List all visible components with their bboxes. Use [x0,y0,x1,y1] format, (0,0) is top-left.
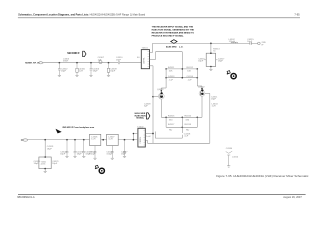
stamp mark 1 [227,71,236,79]
svg-text:10K: 10K [187,70,191,72]
second IF wire (top) [153,42,258,44]
block T4302 [138,128,145,147]
svg-text:5pF: 5pF [144,105,148,107]
small output circuit bottom right [226,151,233,167]
box B2 (C4316/C4317 network) [206,53,215,66]
svg-text:Figure 7-65. HUE4040A/HUE4043A: Figure 7-65. HUE4040A/HUE4043A (VHF) Rec… [216,174,309,178]
Q2 collector wire right and down [205,93,210,143]
svg-text:C4313: C4313 [168,76,175,78]
series coil L4302 [231,42,238,43]
svg-text:18pF: 18pF [77,154,83,156]
shunt cap branch b84 [82,140,85,158]
output terminal 2nd IF [258,42,261,45]
terminal J1 [39,62,44,64]
svg-text:18pF: 18pF [247,41,253,43]
svg-text:.1uF: .1uF [169,79,174,81]
svg-text:18pF: 18pF [116,59,122,61]
supply line to bias network [156,52,183,78]
shunt branch C4306 [89,63,92,77]
svg-text:2ND MIX IF From backplane area: 2ND MIX IF From backplane area [62,126,95,129]
svg-text:MIXER_RF_IN: MIXER_RF_IN [25,63,40,65]
svg-text:18pF: 18pF [211,98,217,100]
svg-text:150pF: 150pF [106,154,113,156]
shunt branch L4306 [75,63,78,77]
svg-text:T4302: T4302 [137,127,144,129]
T4301 right pins [150,43,156,96]
svg-text:1pF: 1pF [98,59,102,61]
svg-text:Q4302: Q4302 [198,87,205,89]
emitter drops to lower rail [161,96,202,117]
shunt branch b124 [123,140,126,158]
svg-text:7-95: 7-95 [294,12,300,16]
series cap C4315 [250,42,252,45]
upper bias rail 1 [166,68,197,70]
svg-text:T4301: T4301 [142,48,149,50]
svg-text:August 29, 2007: August 29, 2007 [283,195,302,199]
upper bias rail 2 [166,77,197,79]
svg-text:.1uF: .1uF [187,79,192,81]
verticals between rails [161,69,202,93]
series coil C4307 [99,61,102,64]
svg-text:18pF: 18pF [121,154,127,156]
callout arrow (hollow) [147,113,150,119]
svg-text:CERFIL: CERFIL [140,137,142,144]
svg-text:PRODUCE SECOND IF SIGNAL.: PRODUCE SECOND IF SIGNAL. [152,34,185,37]
svg-text:RECEIVER SYNTHESIZER ARE MIXED: RECEIVER SYNTHESIZER ARE MIXED TO [152,31,195,34]
svg-text:SECOND IF: SECOND IF [67,53,80,55]
drop below L4307 [111,146,114,160]
bottom main wire [28,139,90,141]
svg-text:1uH: 1uH [212,105,216,107]
transistor Q4302 [199,88,205,97]
svg-text:18pF: 18pF [47,148,53,150]
bottom terminal [21,139,23,141]
svg-text:18pF: 18pF [110,71,116,73]
svg-text:Q4301: Q4301 [157,89,164,91]
svg-text:1uH: 1uH [79,71,83,73]
svg-text:330: 330 [169,120,173,122]
series cap C4310 [118,61,119,64]
svg-text:IF: IF [262,44,265,46]
svg-text:.1uF: .1uF [184,136,189,138]
series box L4307 [107,134,119,145]
T4302 right pins [145,134,153,141]
svg-text:10K: 10K [169,70,173,72]
svg-text:R4318: R4318 [185,124,192,126]
svg-text:44.85 MHZ: 44.85 MHZ [166,46,177,49]
R4313 branch from IF wire [210,43,212,53]
svg-text:INJECTION SIGNAL GENERATED BY: INJECTION SIGNAL GENERATED BY THE [152,29,195,32]
base junction dot on long vertical [152,96,154,98]
svg-text:R4315: R4315 [168,116,175,118]
svg-text:18pF: 18pF [218,61,224,63]
svg-text:NU: NU [169,129,173,131]
svg-text:120nH: 120nH [229,41,236,43]
svg-text:18pF: 18pF [34,163,40,165]
svg-text:C4330: C4330 [226,148,233,150]
svg-text:R4316: R4316 [185,116,192,118]
crystal box Y4301 [39,157,51,169]
2ND MIX label with cursor arrow [56,129,62,134]
lower bias rail 1 [161,116,202,118]
svg-text:L.O.: L.O. [179,47,184,49]
svg-text:18pF: 18pF [93,71,99,73]
flow arrow (hollow) [83,51,86,57]
crystal branch [44,140,46,157]
block T4301 [141,50,149,69]
svg-text:R4311: R4311 [168,67,175,69]
callout diamond on IF wire [171,40,177,44]
stamp mark 2 [95,165,104,173]
base wire to Q4301 [153,96,158,98]
svg-text:THE RECEIVER INPUT SIGNAL AND: THE RECEIVER INPUT SIGNAL AND THE [152,26,194,29]
svg-text:150pF: 150pF [89,154,96,156]
svg-text:NU: NU [186,129,190,131]
wire RF input line [43,62,141,64]
svg-text:60: 60 [137,57,140,59]
svg-text:44.85: 44.85 [41,164,46,166]
svg-text:330: 330 [185,120,189,122]
svg-text:Schematics, Component Location: Schematics, Component Location Diagrams,… [18,14,146,17]
svg-text:51: 51 [213,51,216,53]
transistor Q4301 [158,90,164,99]
long vertical continues down [152,97,154,144]
junction on IF wire [210,43,212,45]
svg-text:C4314: C4314 [187,76,194,78]
svg-text:1uH: 1uH [108,139,112,141]
svg-text:R4317: R4317 [168,124,175,126]
shunt branch C4302 [58,63,61,77]
node junctions on RF input line [59,62,110,64]
svg-text:1uH: 1uH [91,139,95,141]
svg-text:L4310: L4310 [232,157,239,159]
shunt cap branch b75 [73,140,76,158]
svg-text:18pF: 18pF [198,61,204,63]
svg-text:R4312: R4312 [187,67,194,69]
footer rule [18,193,306,195]
svg-text:6816982H01-A: 6816982H01-A [17,195,35,199]
svg-text:18pF: 18pF [60,154,66,156]
shunt branch C4309 [107,63,110,77]
bottom enclosure rail [148,140,210,143]
series box L4305 [90,134,101,145]
svg-text:18pF: 18pF [52,163,58,165]
drop below L4305 [93,146,96,160]
svg-text:18pF: 18pF [61,71,67,73]
svg-text:1uH: 1uH [146,136,150,138]
T4302 left upper pin [133,134,138,140]
shunt cap branch b67 [65,140,68,158]
svg-text:SIGNAL: SIGNAL [136,117,145,120]
svg-text:CERFIL: CERFIL [144,57,146,64]
lower bias rail 2 [166,126,197,128]
note text block [152,26,195,38]
svg-text:39nH: 39nH [63,61,69,63]
header rule [18,17,300,19]
